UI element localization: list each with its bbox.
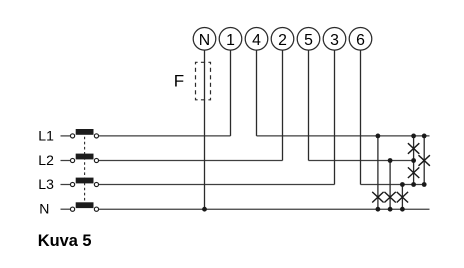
svg-text:3: 3	[330, 32, 339, 49]
svg-text:6: 6	[356, 32, 365, 49]
svg-text:5: 5	[304, 32, 313, 49]
svg-text:N: N	[39, 201, 49, 217]
svg-text:2: 2	[278, 32, 287, 49]
svg-text:F: F	[174, 71, 184, 90]
svg-text:N: N	[199, 32, 210, 49]
svg-text:L1: L1	[38, 127, 54, 143]
svg-text:4: 4	[252, 32, 261, 49]
svg-text:L2: L2	[38, 152, 54, 168]
svg-text:Kuva 5: Kuva 5	[38, 232, 92, 250]
svg-text:1: 1	[226, 32, 235, 49]
svg-text:L3: L3	[38, 176, 54, 192]
